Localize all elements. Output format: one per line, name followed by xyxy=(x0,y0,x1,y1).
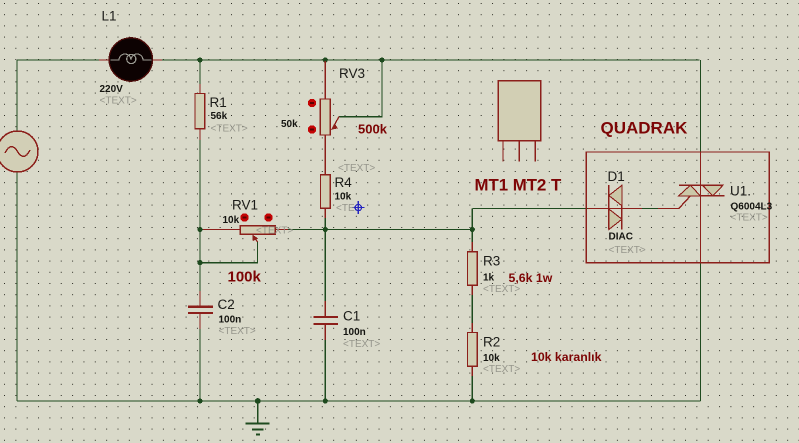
svg-text:50k: 50k xyxy=(281,119,298,130)
pin RV1 left xyxy=(203,229,240,231)
wire left mid vertical to C2 and bottom xyxy=(199,230,201,307)
node mid R3 xyxy=(470,227,475,232)
resistor R3 xyxy=(468,252,478,286)
pin RV3 top xyxy=(324,61,326,99)
svg-text:100k: 100k xyxy=(228,269,262,286)
pin triac gate xyxy=(658,208,679,210)
svg-text:10k: 10k xyxy=(335,192,352,203)
svg-text:R1: R1 xyxy=(210,95,227,110)
wire R4 to mid rail xyxy=(324,208,326,229)
svg-text:10k: 10k xyxy=(223,215,240,226)
node bottom R2 xyxy=(470,398,475,403)
node top RV3 xyxy=(323,57,328,62)
pin C2 bottom xyxy=(199,314,201,329)
maroon pin stubs xyxy=(99,60,701,376)
capacitor C2 xyxy=(188,307,213,313)
pin R4 bottom xyxy=(324,208,326,218)
svg-text:<TEXT>: <TEXT> xyxy=(100,96,137,107)
wire C1 bottom xyxy=(324,324,326,401)
resistor R4 xyxy=(321,175,331,209)
svg-text:<TEXT>: <TEXT> xyxy=(609,245,646,256)
wire bottom rail xyxy=(17,400,701,402)
svg-text:<TE: <TE xyxy=(336,203,355,214)
diac D1 xyxy=(609,185,622,230)
wire left rail upper xyxy=(16,60,18,131)
triac U1 xyxy=(679,185,725,208)
wire R3 to R2 xyxy=(471,285,473,332)
pin RV3 bottom / R4 top xyxy=(324,135,326,175)
pin R1 top xyxy=(199,84,201,93)
resistor R1 xyxy=(195,93,205,128)
svg-text:R4: R4 xyxy=(335,175,353,190)
node top RV3 wiper xyxy=(379,57,384,62)
svg-text:RV1: RV1 xyxy=(232,198,258,213)
wire DIAC to triac gate xyxy=(622,208,679,210)
svg-text:DIAC: DIAC xyxy=(609,232,633,243)
pin C2 top xyxy=(199,291,201,306)
svg-text:10k: 10k xyxy=(483,353,500,364)
wire triac bottom to rail xyxy=(700,263,702,401)
node top R1 xyxy=(197,57,202,62)
QUADRAK box xyxy=(586,152,769,263)
wire RV3 to R4 xyxy=(324,135,326,175)
wire R3 top xyxy=(471,230,473,252)
pin triac MT1 xyxy=(700,196,702,263)
pin DIAC middle xyxy=(609,208,622,210)
svg-text:RV3: RV3 xyxy=(339,66,365,81)
svg-text:<TEXT>: <TEXT> xyxy=(338,163,375,174)
wire R2 bottom xyxy=(471,366,473,401)
svg-text:<TEXT>: <TEXT> xyxy=(219,326,256,337)
potentiometer RV3 xyxy=(308,99,339,135)
ground xyxy=(245,401,269,435)
wire gate net horizontal to DIAC xyxy=(472,208,609,210)
wire gate net vertical xyxy=(471,209,473,230)
svg-text:220V: 220V xyxy=(100,84,124,95)
pin R1 bottom xyxy=(199,129,201,140)
lamp L1 xyxy=(109,38,152,81)
svg-text:MT1 MT2 T: MT1 MT2 T xyxy=(475,176,562,195)
wire RV3 wiper to top rail xyxy=(339,60,382,117)
svg-text:1k: 1k xyxy=(483,273,495,284)
svg-text:R3: R3 xyxy=(483,254,500,269)
wire mid rail xyxy=(200,229,472,231)
node bottom C2 xyxy=(197,398,202,403)
wire R1 top xyxy=(199,60,201,93)
svg-text:Q6004L3: Q6004L3 xyxy=(731,202,773,213)
svg-text:<TEXT>: <TEXT> xyxy=(256,226,293,237)
pin lamp right xyxy=(152,59,162,61)
pin lamp left xyxy=(99,59,110,61)
wire top rail xyxy=(17,59,700,61)
wire C1 top xyxy=(324,230,326,318)
svg-text:<TEXT>: <TEXT> xyxy=(483,364,520,375)
svg-text:<TEXT>: <TEXT> xyxy=(211,124,248,135)
svg-text:R2: R2 xyxy=(483,335,500,350)
potentiometer RV1 xyxy=(240,213,275,242)
node bottom ground xyxy=(255,398,261,404)
pin triac MT2 xyxy=(700,152,702,185)
svg-text:<TEXT>: <TEXT> xyxy=(483,284,520,295)
pin RV1 right xyxy=(275,229,288,231)
node mid left xyxy=(197,227,202,232)
pin R3 bottom xyxy=(471,285,473,295)
wire triac top from rail xyxy=(700,60,702,152)
svg-text:<TEXT>: <TEXT> xyxy=(731,213,768,224)
pin R2 top xyxy=(471,323,473,333)
svg-text:<TEXT>: <TEXT> xyxy=(343,339,380,350)
svg-text:C1: C1 xyxy=(343,309,360,324)
svg-text:100n: 100n xyxy=(219,315,242,326)
svg-text:QUADRAK: QUADRAK xyxy=(601,119,689,138)
pin C1 top xyxy=(324,301,326,316)
node mid C1 xyxy=(323,227,328,232)
node wiper tie xyxy=(197,260,202,265)
wire RV3 branch top xyxy=(324,60,326,99)
svg-text:U1.: U1. xyxy=(730,184,751,199)
capacitor C1 xyxy=(313,317,338,324)
resistor R2 xyxy=(468,333,478,367)
pin R3 top xyxy=(471,242,473,252)
svg-text:C2: C2 xyxy=(218,297,235,312)
pin R2 bottom xyxy=(471,366,473,376)
node bottom C1 xyxy=(323,398,328,403)
svg-text:500k: 500k xyxy=(358,122,388,137)
origin marker (blue crosshair) xyxy=(352,201,365,214)
pin C1 bottom xyxy=(324,325,326,340)
wire left rail lower xyxy=(16,172,18,401)
svg-text:100n: 100n xyxy=(343,327,366,338)
svg-text:10k karanlık: 10k karanlık xyxy=(531,350,602,364)
svg-text:5,6k 1w: 5,6k 1w xyxy=(509,271,553,285)
wire RV1 wiper tie xyxy=(200,242,258,263)
svg-text:56k: 56k xyxy=(211,111,228,122)
svg-text:L1: L1 xyxy=(102,9,117,24)
svg-text:D1: D1 xyxy=(608,169,625,184)
TO-220 package graphic xyxy=(498,81,541,162)
AC source V1 xyxy=(0,131,38,172)
pin DIAC right xyxy=(622,208,642,210)
pin DIAC left xyxy=(588,208,609,210)
wire R1 bottom to mid rail xyxy=(199,129,201,230)
